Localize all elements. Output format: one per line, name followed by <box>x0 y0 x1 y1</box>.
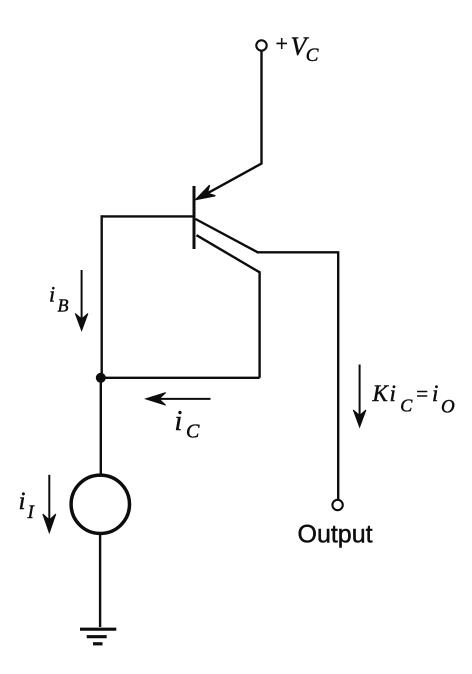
wire emitter lead from +VC to Q1 <box>199 51 262 198</box>
label KiC = iO <box>372 381 456 418</box>
svg-text:O: O <box>441 397 455 418</box>
label iI <box>19 488 36 523</box>
wire current source to ground <box>99 534 101 627</box>
svg-text:+: + <box>276 31 288 56</box>
label iB <box>49 281 69 315</box>
svg-text:=: = <box>416 382 428 406</box>
svg-text:C: C <box>306 45 319 66</box>
wire collector 1 of Q1 (diode-connected) diagonal <box>197 235 260 272</box>
svg-text:i: i <box>19 488 26 515</box>
current arrow iC (left) <box>146 393 211 406</box>
current arrow iB (down) <box>75 270 88 331</box>
current source I1 circle <box>71 475 129 533</box>
svg-text:i: i <box>432 381 438 406</box>
output terminal circle <box>332 500 342 510</box>
svg-text:C: C <box>400 396 413 416</box>
label +VC <box>276 31 319 66</box>
current arrow iI (down) <box>43 475 56 533</box>
wire node to current source <box>100 378 102 475</box>
wire collector 1 vertical down <box>258 271 260 378</box>
svg-text:B: B <box>58 295 69 315</box>
transistor Q1 base bar <box>193 186 196 249</box>
emitter arrow of Q1 (PNP, points into base bar) <box>196 185 216 199</box>
label iC <box>175 406 201 443</box>
svg-text:i: i <box>390 381 396 406</box>
svg-text:Output: Output <box>298 520 373 548</box>
wire collector 2 horizontal <box>257 251 339 253</box>
node A junction dot <box>96 373 106 383</box>
current arrow KiC = iO (down) <box>353 365 366 428</box>
wire base lead (bar to left corner) <box>102 215 194 217</box>
wire base vertical down to node <box>100 215 102 377</box>
svg-text:C: C <box>186 421 200 443</box>
wire output vertical down to terminal <box>337 251 339 499</box>
svg-text:K: K <box>372 381 390 406</box>
wire collector 2 of Q1 diagonal to output <box>196 219 258 252</box>
svg-text:i: i <box>49 281 55 306</box>
svg-text:i: i <box>175 406 183 437</box>
power terminal +VC <box>256 40 266 50</box>
wire collector 1 horizontal back to node <box>101 377 260 379</box>
ground symbol <box>80 629 116 644</box>
svg-text:I: I <box>27 502 36 523</box>
